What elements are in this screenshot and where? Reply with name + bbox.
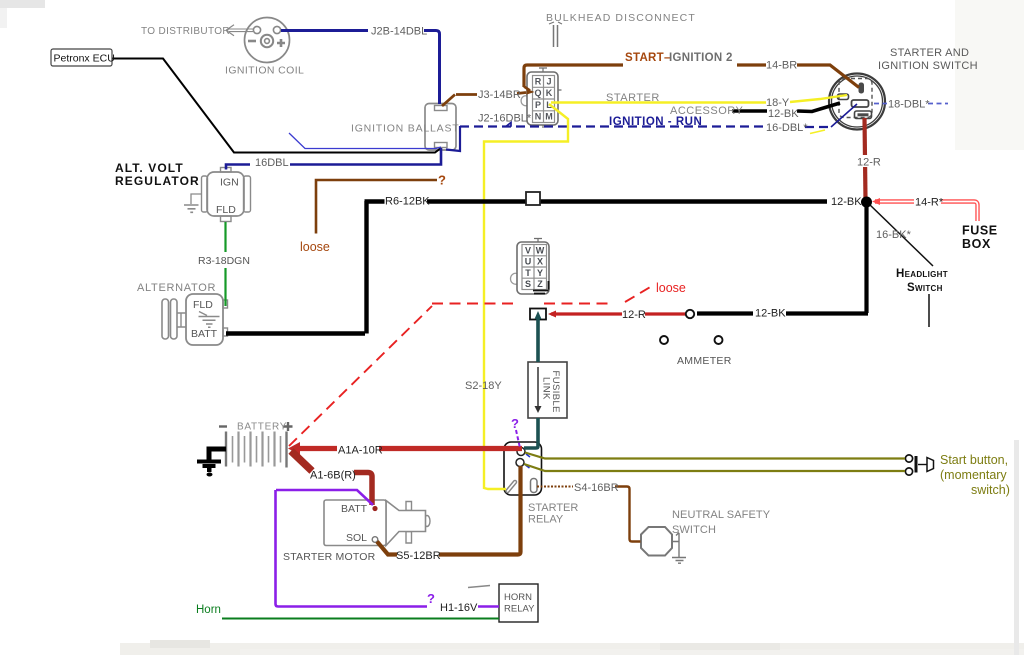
svg-text:IGNITION - RUN: IGNITION - RUN bbox=[609, 116, 702, 128]
svg-text:STARTER AND: STARTER AND bbox=[890, 47, 969, 59]
svg-text:U: U bbox=[525, 257, 532, 267]
svg-text:FLD: FLD bbox=[193, 299, 213, 311]
svg-text:BOX: BOX bbox=[962, 237, 991, 251]
svg-text:BATT: BATT bbox=[191, 328, 218, 340]
svg-text:?: ? bbox=[511, 416, 519, 431]
svg-text:16DBL: 16DBL bbox=[255, 157, 289, 169]
svg-text:SOL: SOL bbox=[346, 532, 367, 544]
svg-text:?: ? bbox=[438, 173, 446, 188]
svg-text:loose: loose bbox=[656, 281, 686, 295]
svg-text:IGNITION SWITCH: IGNITION SWITCH bbox=[878, 60, 978, 72]
svg-text:START–: START– bbox=[625, 52, 671, 64]
svg-text:RELAY: RELAY bbox=[528, 514, 564, 526]
svg-text:STARTER: STARTER bbox=[528, 502, 578, 514]
svg-text:RELAY: RELAY bbox=[504, 604, 535, 615]
svg-text:N: N bbox=[535, 112, 542, 122]
svg-text:TO DISTRIBUTOR: TO DISTRIBUTOR bbox=[141, 26, 230, 37]
svg-text:HORN: HORN bbox=[504, 592, 532, 603]
svg-text:J: J bbox=[546, 77, 551, 87]
svg-text:BULKHEAD DISCONNECT: BULKHEAD DISCONNECT bbox=[546, 12, 696, 24]
svg-text:S4-16BR: S4-16BR bbox=[574, 482, 619, 494]
svg-text:NEUTRAL SAFETY: NEUTRAL SAFETY bbox=[672, 509, 771, 521]
svg-text:Y: Y bbox=[537, 268, 543, 278]
svg-text:W: W bbox=[536, 245, 545, 255]
svg-text:loose: loose bbox=[300, 240, 330, 254]
svg-text:STARTER: STARTER bbox=[606, 92, 660, 104]
svg-text:REGULATOR: REGULATOR bbox=[115, 174, 200, 188]
svg-text:18-DBL*: 18-DBL* bbox=[888, 99, 930, 111]
svg-text:16-BK*: 16-BK* bbox=[876, 229, 912, 241]
svg-text:AMMETER: AMMETER bbox=[677, 355, 732, 367]
svg-text:T: T bbox=[525, 268, 531, 278]
svg-text:S5-12BR: S5-12BR bbox=[396, 550, 441, 562]
svg-text:SWITCH: SWITCH bbox=[672, 524, 716, 536]
svg-text:IGN: IGN bbox=[220, 177, 239, 189]
svg-text:Start button,: Start button, bbox=[940, 453, 1008, 467]
svg-text:A1-6B(R): A1-6B(R) bbox=[310, 470, 356, 482]
svg-text:STARTER MOTOR: STARTER MOTOR bbox=[283, 551, 376, 563]
svg-text:R: R bbox=[535, 77, 542, 87]
svg-text:K: K bbox=[546, 88, 553, 98]
svg-text:14-BR: 14-BR bbox=[766, 60, 797, 72]
svg-text:Z: Z bbox=[537, 279, 543, 289]
svg-text:P: P bbox=[535, 100, 541, 110]
svg-text:?: ? bbox=[427, 591, 435, 606]
svg-text:IGNITION BALLAST: IGNITION BALLAST bbox=[351, 123, 460, 135]
svg-text:BATT: BATT bbox=[341, 503, 368, 515]
svg-text:ALTERNATOR: ALTERNATOR bbox=[137, 282, 216, 294]
svg-text:Petronx ECU: Petronx ECU bbox=[54, 53, 115, 65]
svg-text:12-R: 12-R bbox=[857, 157, 881, 169]
svg-text:IGNITION COIL: IGNITION COIL bbox=[225, 65, 304, 77]
svg-text:X: X bbox=[537, 257, 543, 267]
svg-text:R6-12BK: R6-12BK bbox=[385, 196, 430, 208]
svg-text:V: V bbox=[525, 245, 531, 255]
svg-text:Headlight: Headlight bbox=[896, 268, 948, 280]
svg-text:12-BK: 12-BK bbox=[768, 108, 799, 120]
svg-text:A1A-10R: A1A-10R bbox=[338, 445, 383, 457]
svg-text:M: M bbox=[545, 112, 553, 122]
svg-text:switch): switch) bbox=[971, 483, 1010, 497]
svg-text:J3-14BR: J3-14BR bbox=[478, 89, 521, 101]
svg-text:Q: Q bbox=[534, 88, 541, 98]
svg-text:Horn: Horn bbox=[196, 604, 221, 616]
svg-text:J2B-14DBL: J2B-14DBL bbox=[371, 26, 427, 38]
svg-text:R3-18DGN: R3-18DGN bbox=[198, 255, 250, 267]
svg-text:BATTERY: BATTERY bbox=[237, 422, 287, 433]
svg-text:S2-18Y: S2-18Y bbox=[465, 380, 502, 392]
svg-text:14-R*: 14-R* bbox=[915, 197, 944, 209]
svg-text:Switch: Switch bbox=[907, 282, 943, 294]
svg-text:(momentary: (momentary bbox=[940, 468, 1007, 482]
svg-text:ALT. VOLT: ALT. VOLT bbox=[115, 161, 184, 175]
svg-text:16-DBL*: 16-DBL* bbox=[766, 122, 808, 134]
svg-text:FUSE: FUSE bbox=[962, 224, 998, 238]
svg-text:H1-16V: H1-16V bbox=[440, 602, 478, 614]
svg-text:12-R: 12-R bbox=[622, 309, 646, 321]
svg-text:LINK: LINK bbox=[541, 377, 552, 400]
svg-text:L: L bbox=[546, 100, 552, 110]
svg-text:12-BK: 12-BK bbox=[831, 196, 862, 208]
svg-text:12-BK: 12-BK bbox=[755, 308, 786, 320]
svg-text:J2-16DBL*: J2-16DBL* bbox=[478, 113, 532, 125]
svg-text:IGNITION 2: IGNITION 2 bbox=[669, 52, 733, 64]
svg-text:S: S bbox=[525, 279, 531, 289]
svg-text:FLD: FLD bbox=[216, 204, 236, 216]
